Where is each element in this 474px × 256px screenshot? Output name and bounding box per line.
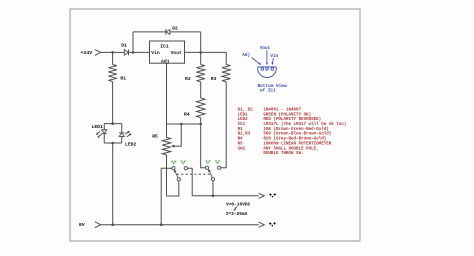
wire Adj horizontal bus	[167, 123, 201, 125]
svg-text:SW1: SW1	[238, 147, 246, 151]
SW1a arm arrowhead	[174, 169, 177, 172]
wire LED1 branch upper	[103, 124, 105, 130]
bottom-view leader Adj	[252, 57, 260, 63]
svg-text:Vin: Vin	[270, 54, 278, 59]
wire LED block to 0V rail	[112, 143, 114, 225]
wire R3 top lead	[225, 52, 227, 64]
bottom-view TO-92 package outline	[258, 67, 277, 78]
wire Adj pin lead	[166, 63, 168, 124]
bottom-view leader Vout	[266, 50, 268, 63]
svg-text:R4: R4	[184, 111, 190, 117]
svg-text:R1: R1	[238, 128, 244, 132]
wire LED1 branch lower	[103, 134, 105, 143]
svg-text:of IC1: of IC1	[260, 89, 276, 94]
svg-text:560 (Green-Blue-Brown-Gold): 560 (Green-Blue-Brown-Gold)	[263, 132, 331, 137]
SW1a right throw contact	[184, 167, 187, 170]
svg-text:RED (POLARITY REVERSED): RED (POLARITY REVERSED)	[263, 117, 321, 122]
junction Vout/D2/R2	[199, 51, 202, 54]
svg-text:D1: D1	[121, 43, 127, 49]
parts list table	[238, 108, 347, 156]
wire R4 junction to SW1b left throw	[201, 124, 206, 168]
SW1b position labels	[205, 161, 220, 165]
bottom-view pin 2 (Vout)	[266, 68, 269, 71]
LED2 emission arrows	[125, 131, 131, 137]
LED1 emission arrows	[96, 131, 101, 137]
bottom-view leader Vin	[272, 58, 275, 63]
schematic border frame	[70, 9, 360, 241]
svg-text:R4: R4	[238, 138, 244, 142]
wire R3 to SW1b right throw	[221, 82, 226, 168]
regulator IC1 box	[150, 41, 185, 63]
svg-text:+24V: +24V	[81, 50, 93, 56]
0V output terminal mark	[269, 222, 276, 226]
wire SW1b common to output rail	[212, 181, 214, 196]
svg-text:ANY SMALL DOUBLE POLE,: ANY SMALL DOUBLE POLE,	[263, 147, 318, 151]
wire LED2 branch upper	[121, 124, 123, 133]
V output arrowhead	[259, 193, 265, 198]
wire SW1a right throw to output rail	[187, 168, 192, 196]
junction D1/D2 branch	[132, 51, 135, 54]
0V output arrowhead	[259, 222, 265, 227]
wire D2 top right segment	[170, 31, 201, 33]
svg-text:D2: D2	[172, 26, 178, 32]
svg-text:R1: R1	[120, 76, 126, 82]
wire +24V rail to D1	[101, 51, 125, 53]
junction Adj/R4	[199, 123, 202, 126]
diode D2	[166, 29, 170, 35]
svg-text:LM317L (the LM317 will be ok t: LM317L (the LM317 will be ok too)	[263, 122, 346, 127]
svg-text:10KOhm LINEAR POTENTIOMETER: 10KOhm LINEAR POTENTIOMETER	[263, 141, 331, 146]
SW1b arm arrowhead	[208, 169, 211, 172]
wire R1 to LED block	[112, 82, 114, 124]
SW1a position labels	[171, 161, 186, 165]
svg-text:LED2: LED2	[238, 118, 249, 122]
svg-text:R2,R3: R2,R3	[238, 133, 251, 137]
svg-text:Vout: Vout	[171, 50, 182, 56]
resistor R3	[222, 65, 230, 82]
junction LED block bottom	[111, 142, 114, 145]
svg-text:820 (Grey-Red-Brown-Gold): 820 (Grey-Red-Brown-Gold)	[263, 137, 326, 142]
svg-text:Adj: Adj	[242, 53, 250, 58]
potentiometer R5	[162, 137, 170, 155]
SW1a common contact	[177, 178, 180, 181]
svg-text:R2: R2	[185, 76, 191, 82]
wire D2 branch down-right	[200, 32, 202, 53]
wire SW1a common to R5	[167, 181, 179, 196]
wire D2 branch up-left	[132, 32, 134, 53]
svg-text:Vin: Vin	[151, 50, 160, 56]
SW1b arm	[209, 170, 213, 178]
wire R5 top lead	[166, 124, 168, 137]
svg-text:R5: R5	[238, 142, 244, 146]
svg-text:0V: 0V	[79, 222, 85, 228]
wire LED2 branch lower	[121, 136, 123, 143]
wire LED block bottom	[104, 142, 122, 144]
node +24V input arrow	[95, 49, 101, 55]
svg-text:R3: R3	[211, 76, 217, 82]
wire SW1a left throw to 0V	[161, 168, 172, 225]
SW1 gang coupling dashed link	[177, 173, 211, 175]
wire LED block top	[104, 123, 122, 125]
svg-text:Vout: Vout	[260, 46, 271, 51]
svg-text:15K (Brown-Green-Red-Gold): 15K (Brown-Green-Red-Gold)	[263, 127, 328, 132]
junction +24V/R1	[111, 51, 114, 54]
svg-text:I=3-25mA: I=3-25mA	[226, 211, 248, 217]
wire D1 to IC1 Vin	[128, 51, 149, 53]
wire V output rail	[192, 195, 259, 197]
SW1b left throw contact	[205, 166, 208, 169]
svg-text:LED1: LED1	[92, 124, 103, 130]
wire R2 to R4	[200, 82, 202, 98]
svg-text:V=0-10VDC: V=0-10VDC	[226, 201, 251, 207]
svg-text:GREEN (POLARITY OK): GREEN (POLARITY OK)	[263, 112, 311, 117]
LED LED1	[102, 130, 107, 134]
wire Vout rail	[185, 51, 227, 53]
junction 0V/LED branch	[111, 223, 114, 226]
junction Adj/wiper	[180, 123, 183, 126]
wire R1 top lead	[112, 52, 114, 64]
SW1b right throw contact	[218, 166, 221, 169]
LED LED2	[119, 133, 124, 137]
svg-text:D1, D2: D1, D2	[238, 108, 254, 112]
bottom-view pin 3 (Vin)	[271, 68, 274, 71]
V output terminal mark	[269, 193, 276, 197]
svg-text:DOUBLE THROW SW.: DOUBLE THROW SW.	[263, 152, 303, 156]
wire D2 top left segment	[133, 31, 166, 33]
svg-text:R5: R5	[152, 133, 158, 139]
resistor R1	[108, 65, 116, 82]
svg-text:1N4001 - 1N4007: 1N4001 - 1N4007	[263, 108, 301, 112]
junction SW1b common/output rail	[212, 195, 215, 198]
SW1b common contact	[211, 178, 214, 181]
wire 0V rail	[101, 224, 259, 226]
svg-text:LED1: LED1	[238, 113, 249, 117]
svg-text:IC1: IC1	[160, 44, 169, 50]
svg-text:Adj: Adj	[161, 59, 169, 65]
SW1a arm	[175, 171, 179, 178]
V/I spec divider slash	[234, 207, 237, 211]
junction 0V/SW1a throw	[160, 223, 163, 226]
node 0V input arrow	[95, 222, 101, 228]
wire R5 bottom lead	[166, 155, 168, 196]
bottom-view pin 1 (Adj)	[261, 68, 264, 71]
R5 wiper arm	[174, 124, 182, 146]
resistor R2	[197, 65, 205, 82]
svg-text:LED2: LED2	[125, 141, 136, 147]
wire R2 top lead	[200, 52, 202, 64]
svg-text:IC1: IC1	[238, 123, 246, 127]
SW1a left throw contact	[172, 167, 175, 170]
wire R4 bottom lead	[200, 118, 202, 124]
diode D1	[124, 50, 128, 56]
R5 wiper arrowhead	[171, 145, 174, 148]
junction LED block top	[111, 122, 114, 125]
resistor R4	[197, 98, 205, 118]
